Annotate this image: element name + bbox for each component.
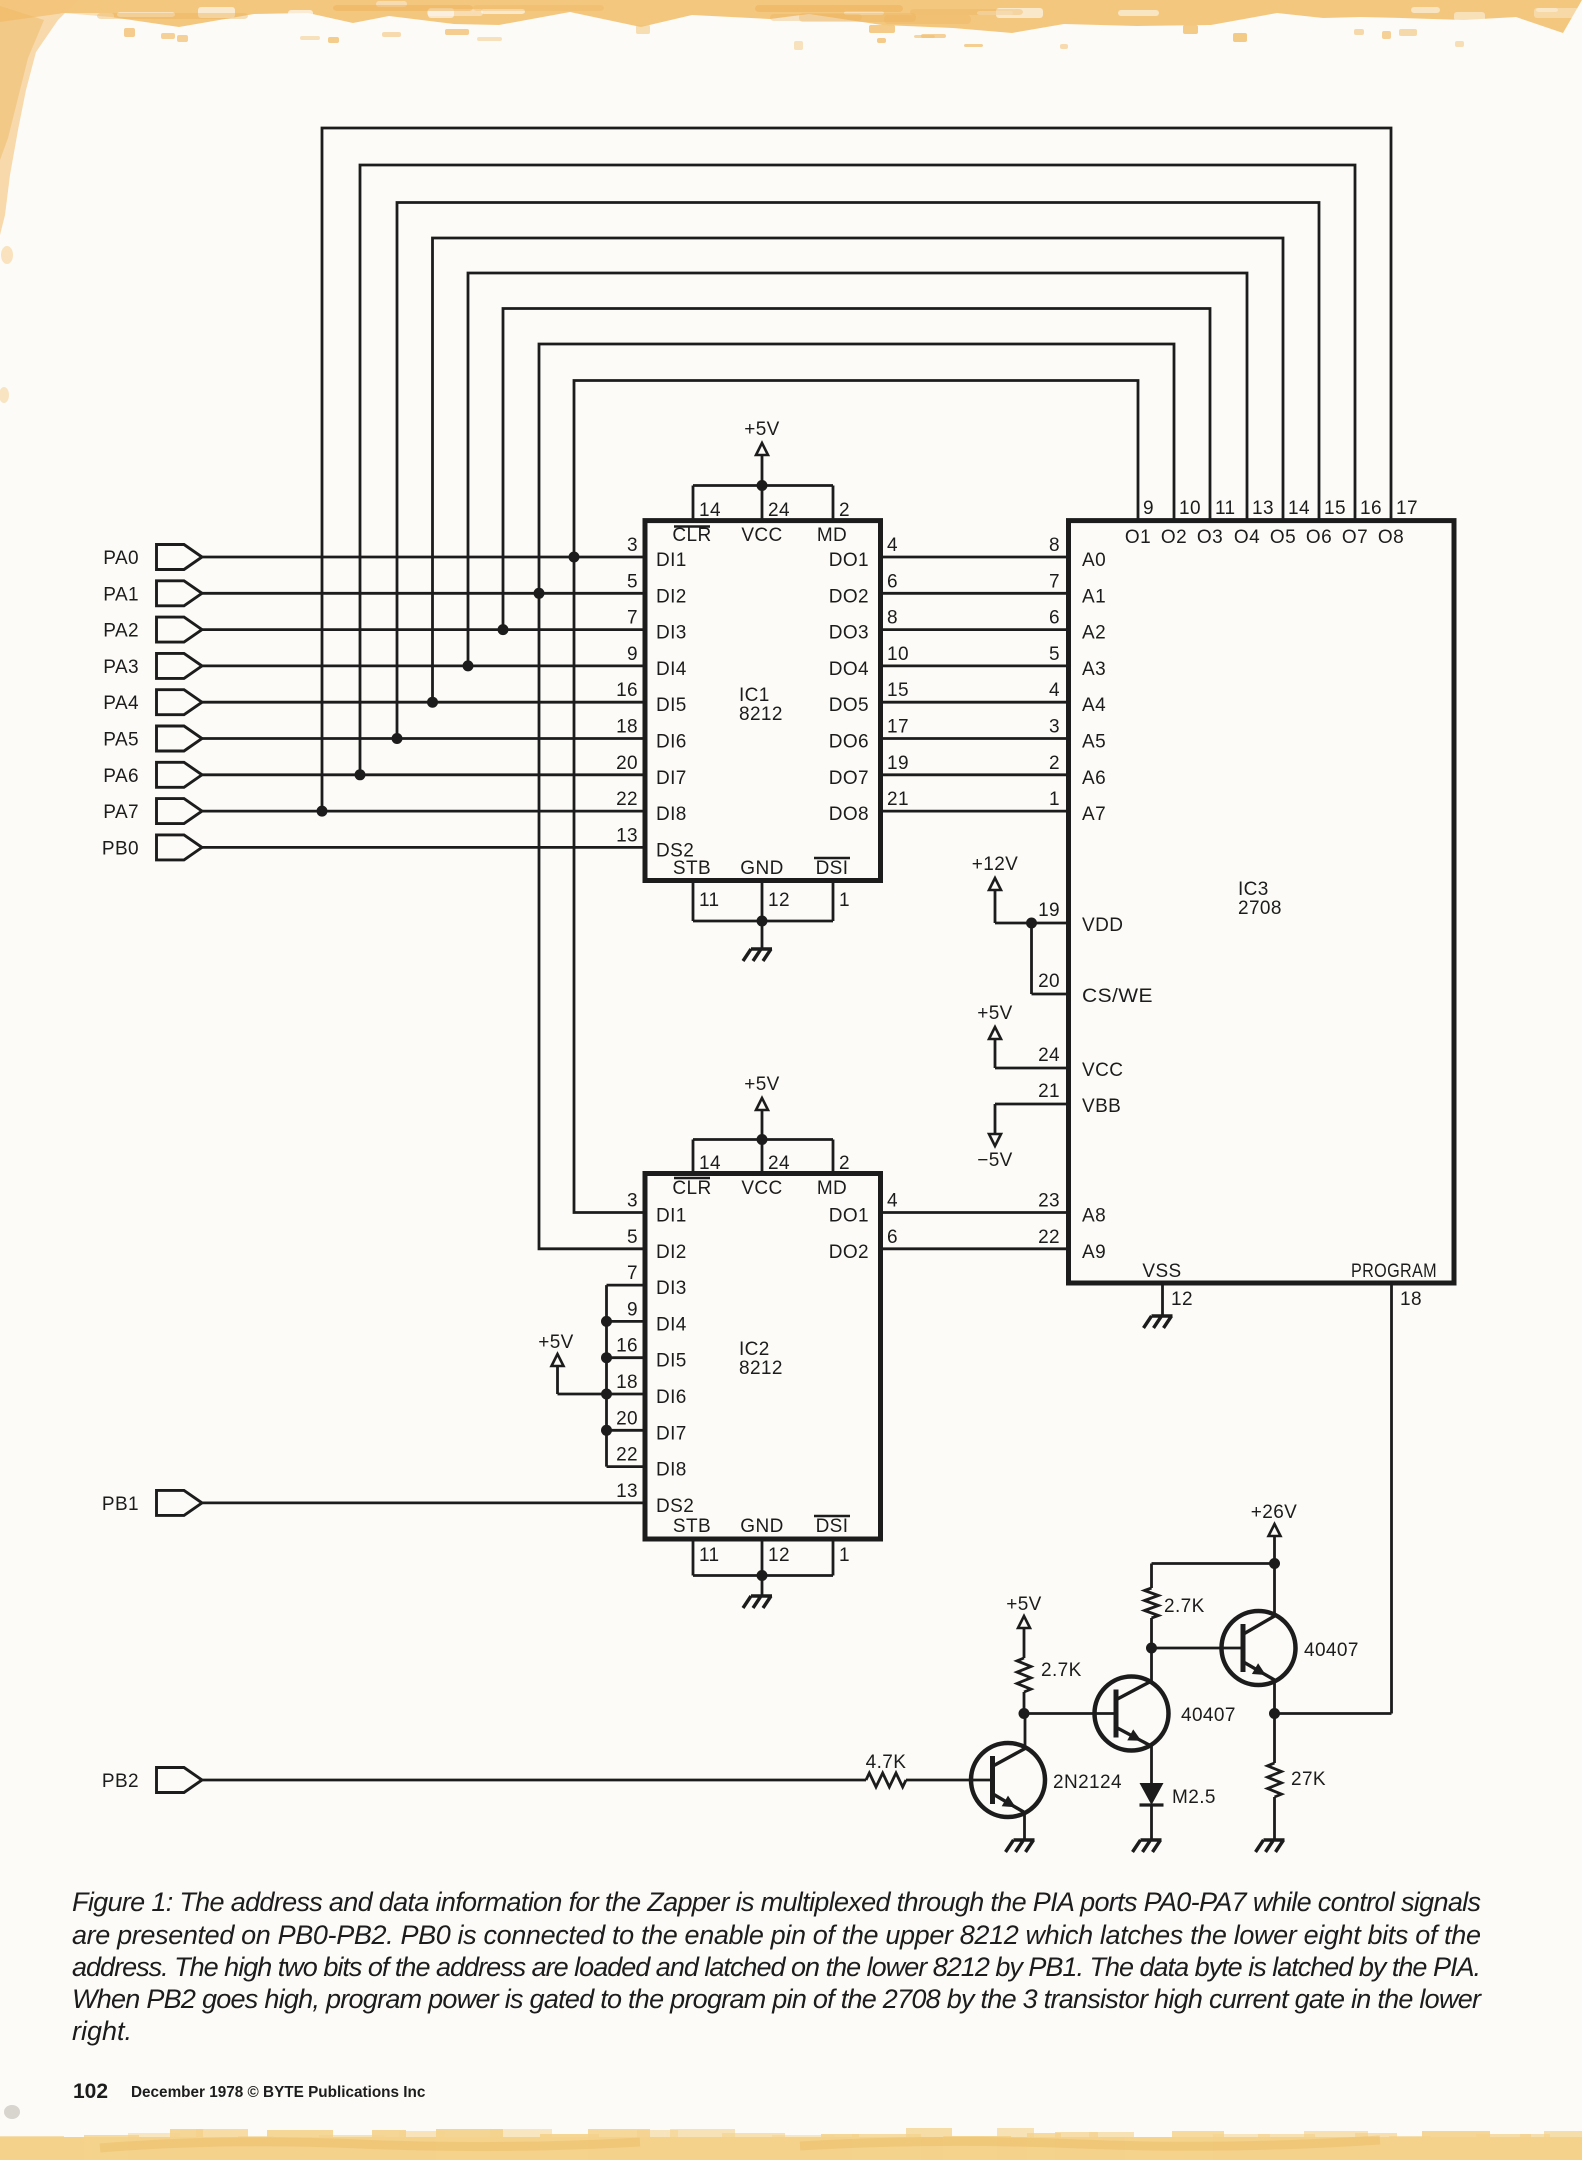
wire PA4 to IC1	[202, 701, 645, 704]
svg-text:Figure 1: The address and data: Figure 1: The address and data informati…	[72, 1887, 1481, 1917]
svg-text:O7: O7	[1342, 527, 1368, 548]
junction node PA0	[569, 552, 580, 563]
svg-text:STB: STB	[673, 1516, 711, 1537]
svg-text:A8: A8	[1082, 1206, 1106, 1227]
wire DO3 to A2	[881, 628, 1069, 631]
svg-text:When PB2 goes high, program po: When PB2 goes high, program power is gat…	[72, 1984, 1482, 2014]
junction node PA7	[317, 806, 328, 817]
connector PA0	[103, 545, 202, 570]
transistor Q3 40407	[1222, 1611, 1359, 1685]
wire PA5 to IC1	[202, 737, 645, 740]
svg-text:O3: O3	[1197, 527, 1223, 548]
ground (27K)	[1256, 1840, 1285, 1852]
junction IC2 DI7 bus	[601, 1425, 612, 1436]
svg-text:4: 4	[887, 1191, 898, 1212]
wire PA1 loop to 2708 pin 10	[539, 344, 1174, 593]
wire PA5 loop to 2708 pin 15	[397, 203, 1319, 739]
svg-text:10: 10	[1179, 498, 1201, 519]
junction IC1 GND	[757, 916, 768, 927]
svg-text:DO4: DO4	[829, 659, 869, 680]
connector PA1	[103, 581, 202, 606]
svg-text:PA5: PA5	[103, 730, 139, 751]
svg-text:3: 3	[1049, 717, 1060, 738]
IC2 ground bracket (pins 11, 12, 1)	[693, 1539, 850, 1596]
wire to Q2 base	[1024, 1712, 1117, 1715]
junction node PA5	[392, 733, 403, 744]
svg-text:17: 17	[887, 717, 909, 738]
wire PA3 to IC1	[202, 665, 645, 668]
svg-text:GND: GND	[740, 858, 783, 879]
orange highlighter stain band bottom	[0, 2105, 1582, 2160]
svg-text:A9: A9	[1082, 1242, 1106, 1263]
IC3 PROGRAM pin 18	[1351, 1261, 1437, 1310]
svg-text:O4: O4	[1234, 527, 1260, 548]
svg-text:2N2124: 2N2124	[1053, 1772, 1122, 1793]
junction IC1 VCC	[757, 480, 768, 491]
page footer	[73, 2080, 426, 2103]
svg-text:DI7: DI7	[656, 1423, 687, 1444]
wire PA3 loop to 2708 pin 13	[468, 273, 1247, 666]
connector PA5	[103, 726, 202, 751]
svg-text:PA3: PA3	[103, 657, 139, 678]
svg-text:14: 14	[1288, 498, 1310, 519]
IC3 VSS pin 12	[1142, 1261, 1193, 1316]
junction IC2 DI5 bus	[601, 1352, 612, 1363]
svg-text:12: 12	[768, 1545, 790, 1566]
wire PA1 vertical down to IC2 DI2	[539, 593, 645, 1249]
svg-text:O8: O8	[1378, 527, 1404, 548]
svg-text:DI1: DI1	[656, 550, 687, 571]
svg-text:7: 7	[627, 608, 638, 629]
IC2 8212 box	[645, 1174, 881, 1540]
svg-text:VCC: VCC	[741, 525, 782, 546]
svg-text:6: 6	[1049, 608, 1060, 629]
junction node PA6	[355, 769, 366, 780]
svg-text:O6: O6	[1306, 527, 1332, 548]
svg-text:address. The high two bits of: address. The high two bits of the addres…	[72, 1952, 1481, 1982]
IC1 8212 box	[645, 521, 881, 881]
svg-text:11: 11	[699, 1545, 720, 1566]
resistor 4.7K	[866, 1752, 907, 1787]
svg-text:2: 2	[839, 500, 850, 521]
svg-text:3: 3	[627, 1191, 638, 1212]
svg-text:4: 4	[887, 535, 898, 556]
svg-text:DO2: DO2	[829, 586, 869, 607]
svg-text:21: 21	[887, 789, 909, 810]
svg-text:DO6: DO6	[829, 732, 869, 753]
power -5V (IC3 VBB)	[977, 1104, 1068, 1171]
svg-text:−5V: −5V	[977, 1150, 1013, 1171]
svg-text:DI1: DI1	[656, 1206, 687, 1227]
junction IC2 DI6 bus	[601, 1389, 612, 1400]
IC3 VBB pin label	[1038, 1081, 1121, 1117]
svg-text:6: 6	[887, 1227, 898, 1248]
svg-text:PB0: PB0	[102, 838, 139, 859]
IC3 address pin labels A0-A7	[1049, 535, 1106, 825]
wire PA4 loop to 2708 pin 14	[433, 238, 1284, 702]
connector PA6	[103, 762, 202, 787]
svg-text:PA1: PA1	[103, 584, 139, 605]
svg-text:VCC: VCC	[1082, 1060, 1123, 1081]
svg-text:8: 8	[887, 608, 898, 629]
wire Q2 collector up	[1150, 1648, 1153, 1681]
orange stain top-left corner	[0, 0, 78, 403]
wire DO4 to A3	[881, 665, 1069, 668]
svg-text:11: 11	[699, 890, 720, 911]
connector PB2	[102, 1768, 202, 1793]
svg-text:A6: A6	[1082, 768, 1106, 789]
svg-text:GND: GND	[740, 1516, 783, 1537]
IC3 top pin numbers 9-17	[1143, 498, 1418, 519]
svg-text:IC2: IC2	[739, 1339, 770, 1360]
junction node PA2	[498, 624, 509, 635]
svg-text:13: 13	[1252, 498, 1274, 519]
connector PA2	[103, 617, 202, 642]
wire DO5 to A4	[881, 701, 1069, 704]
wire PA6 loop to 2708 pin 16	[360, 165, 1355, 775]
svg-text:DO2: DO2	[829, 1242, 869, 1263]
svg-text:CLR: CLR	[672, 525, 711, 546]
svg-text:1: 1	[839, 1545, 850, 1566]
junction node PA4	[427, 697, 438, 708]
svg-text:12: 12	[1171, 1289, 1193, 1310]
svg-text:are presented on PB0-PB2. PB0: are presented on PB0-PB2. PB0 is connect…	[72, 1920, 1481, 1950]
orange highlighter stain band top	[0, 0, 1582, 50]
svg-text:DO8: DO8	[829, 804, 869, 825]
svg-text:18: 18	[616, 717, 638, 738]
wire Q1 emitter to ground	[1023, 1813, 1026, 1841]
power +5V (gate)	[1006, 1594, 1042, 1658]
svg-text:1: 1	[839, 890, 850, 911]
svg-text:DO3: DO3	[829, 623, 869, 644]
svg-text:16: 16	[1360, 498, 1382, 519]
svg-text:16: 16	[616, 680, 638, 701]
IC2 left pin labels	[616, 1191, 694, 1517]
wire DO1 to A0	[881, 556, 1069, 559]
svg-text:DI3: DI3	[656, 1278, 687, 1299]
power +5V (IC2 top)	[744, 1074, 780, 1110]
svg-text:O1: O1	[1125, 527, 1151, 548]
svg-text:+5V: +5V	[744, 419, 780, 440]
svg-text:11: 11	[1215, 498, 1236, 519]
svg-text:20: 20	[1038, 971, 1060, 992]
IC2 top pin names CLR VCC MD	[672, 1178, 847, 1199]
ground (Q1)	[1006, 1840, 1035, 1852]
svg-text:2.7K: 2.7K	[1041, 1660, 1082, 1681]
svg-text:8212: 8212	[739, 1358, 783, 1379]
svg-text:VSS: VSS	[1142, 1261, 1181, 1282]
power +5V (IC2 left)	[538, 1332, 606, 1394]
junction IC2 GND	[757, 1570, 768, 1581]
wire PA0 vertical down to IC2 DI1	[574, 557, 645, 1213]
svg-text:DI6: DI6	[656, 732, 687, 753]
svg-text:M2.5: M2.5	[1172, 1787, 1216, 1808]
IC2 VCC bracket (pins 14, 24, 2)	[693, 1110, 850, 1174]
svg-text:2: 2	[1049, 753, 1060, 774]
figure caption	[72, 1887, 1482, 2046]
svg-text:+5V: +5V	[744, 1074, 780, 1095]
ground (IC1)	[743, 949, 772, 961]
IC3 VCC pin label	[1038, 1045, 1123, 1081]
IC3 A8 pin label	[1038, 1191, 1106, 1227]
wire DO6 to A5	[881, 737, 1069, 740]
svg-text:DI7: DI7	[656, 768, 687, 789]
svg-text:17: 17	[1396, 498, 1418, 519]
svg-text:+5V: +5V	[1006, 1594, 1042, 1615]
svg-text:20: 20	[616, 1408, 638, 1429]
svg-text:15: 15	[887, 680, 909, 701]
svg-text:+5V: +5V	[538, 1332, 574, 1353]
junction +26V	[1269, 1558, 1280, 1569]
wire DO8 to A7	[881, 810, 1069, 813]
svg-text:DO1: DO1	[829, 1206, 869, 1227]
svg-text:5: 5	[627, 1227, 638, 1248]
IC2 right pin labels	[829, 1191, 898, 1263]
connector PA3	[103, 653, 202, 678]
svg-text:2.7K: 2.7K	[1164, 1596, 1205, 1617]
svg-text:A4: A4	[1082, 695, 1106, 716]
transistor Q2 40407	[1095, 1677, 1236, 1751]
wire IC2 DO1 to A8	[881, 1211, 1069, 1214]
IC1 left pin labels	[616, 535, 694, 861]
svg-text:PB2: PB2	[102, 1771, 139, 1792]
svg-text:4: 4	[1049, 680, 1060, 701]
svg-text:DI8: DI8	[656, 804, 687, 825]
svg-text:27K: 27K	[1291, 1769, 1326, 1790]
wire DO7 to A6	[881, 773, 1069, 776]
svg-text:PA2: PA2	[103, 621, 139, 642]
svg-text:8: 8	[1049, 535, 1060, 556]
ground (IC3 VSS)	[1144, 1316, 1173, 1328]
svg-text:18: 18	[616, 1372, 638, 1393]
svg-text:22: 22	[616, 789, 638, 810]
svg-text:14: 14	[699, 500, 721, 521]
svg-text:102: 102	[73, 2080, 108, 2103]
IC3 output pin names O1-O8	[1125, 527, 1404, 548]
svg-text:7: 7	[1049, 571, 1060, 592]
wire PB1 to IC2 DS2	[202, 1502, 645, 1505]
svg-text:6: 6	[887, 571, 898, 592]
IC3 2708 box	[1069, 521, 1455, 1283]
IC3 reference label	[1238, 879, 1282, 919]
wire Q1 collector up	[1024, 1714, 1027, 1749]
wire IC2 DI3-DI8 bus	[607, 1285, 646, 1467]
svg-text:IC3: IC3	[1238, 879, 1269, 900]
connector PA7	[103, 799, 202, 824]
wire Q3 emitter down	[1273, 1680, 1276, 1714]
junction Q1 collector / Q2 base	[1019, 1708, 1030, 1719]
junction node PA1	[534, 588, 545, 599]
power +5V (IC1)	[744, 419, 780, 455]
svg-text:5: 5	[1049, 644, 1060, 665]
junction VDD/CSWE	[1026, 918, 1037, 929]
svg-text:22: 22	[616, 1445, 638, 1466]
IC1 right pin labels	[829, 535, 909, 825]
svg-text:VDD: VDD	[1082, 915, 1123, 936]
IC1 bottom pin names STB GND DSI	[673, 858, 850, 879]
resistor 2.7K (Q1 collector)	[1017, 1658, 1082, 1692]
svg-text:12: 12	[768, 890, 790, 911]
svg-text:24: 24	[768, 1153, 790, 1174]
svg-text:22: 22	[1038, 1227, 1060, 1248]
svg-text:DSI: DSI	[816, 858, 849, 879]
svg-text:CLR: CLR	[672, 1178, 711, 1199]
svg-text:STB: STB	[673, 858, 711, 879]
power +5V (IC3 VCC)	[977, 1003, 1068, 1068]
svg-text:14: 14	[699, 1153, 721, 1174]
IC2 reference label	[739, 1339, 783, 1379]
wire Q2 emitter to diode	[1150, 1746, 1153, 1783]
svg-text:DI4: DI4	[656, 1314, 687, 1335]
wire PA2 loop to 2708 pin 11	[503, 309, 1210, 630]
svg-text:PA0: PA0	[103, 548, 139, 569]
IC1 ground bracket (pins 11, 12, 1)	[693, 881, 850, 950]
svg-text:A3: A3	[1082, 659, 1106, 680]
wire PA7 loop to 2708 pin 17	[322, 128, 1391, 811]
svg-text:24: 24	[1038, 1045, 1060, 1066]
svg-text:13: 13	[616, 1481, 638, 1502]
svg-text:PA4: PA4	[103, 693, 139, 714]
svg-text:DI8: DI8	[656, 1460, 687, 1481]
svg-text:16: 16	[616, 1336, 638, 1357]
svg-text:VBB: VBB	[1082, 1096, 1121, 1117]
diode M2.5	[1140, 1783, 1216, 1808]
svg-text:10: 10	[887, 644, 909, 665]
svg-text:4.7K: 4.7K	[866, 1752, 907, 1773]
svg-text:DO7: DO7	[829, 768, 869, 789]
IC3 A9 pin label	[1038, 1227, 1106, 1263]
svg-text:December 1978 © BYTE Publicati: December 1978 © BYTE Publications Inc	[131, 2084, 426, 2101]
svg-text:DSI: DSI	[816, 1516, 849, 1537]
svg-text:40407: 40407	[1304, 1640, 1359, 1661]
svg-text:O5: O5	[1270, 527, 1296, 548]
svg-text:9: 9	[627, 1299, 638, 1320]
wire PA6 to IC1	[202, 773, 645, 776]
wire PA0 loop to 2708 pin 9	[574, 381, 1138, 558]
svg-text:2708: 2708	[1238, 898, 1282, 919]
connector PB1	[102, 1490, 202, 1515]
svg-text:PA6: PA6	[103, 766, 139, 787]
junction IC2 DI4 bus	[601, 1316, 612, 1327]
wire PA0 to IC1	[202, 556, 645, 559]
svg-text:5: 5	[627, 571, 638, 592]
IC3 VDD pin label	[1038, 900, 1123, 936]
svg-text:40407: 40407	[1181, 1705, 1236, 1726]
IC2 bottom pin names STB GND DSI	[673, 1516, 850, 1537]
svg-text:1: 1	[1049, 789, 1060, 810]
svg-text:20: 20	[616, 753, 638, 774]
wire Q3 base	[1152, 1647, 1245, 1650]
svg-text:right.: right.	[72, 2016, 132, 2046]
svg-text:PB1: PB1	[102, 1494, 139, 1515]
svg-text:DI5: DI5	[656, 1351, 687, 1372]
connector PB0	[102, 835, 202, 860]
junction IC2 VCC	[757, 1134, 768, 1145]
svg-text:+12V: +12V	[972, 854, 1019, 875]
IC1 VCC bracket (pins 14, 24, 2)	[693, 455, 850, 521]
wire resistor top to +26V line	[1152, 1562, 1275, 1565]
svg-text:15: 15	[1324, 498, 1346, 519]
wire 4.7K to Q1 base	[906, 1779, 994, 1782]
svg-text:DI5: DI5	[656, 695, 687, 716]
IC1 top pin names CLR VCC MD	[672, 525, 847, 546]
svg-text:21: 21	[1038, 1081, 1060, 1102]
svg-text:DO5: DO5	[829, 695, 869, 716]
svg-text:13: 13	[616, 825, 638, 846]
svg-text:CS/WE: CS/WE	[1082, 986, 1153, 1007]
svg-text:8212: 8212	[739, 704, 783, 725]
svg-text:9: 9	[627, 644, 638, 665]
wire PB0 to IC1	[202, 846, 645, 849]
resistor 2.7K (Q2 collector)	[1145, 1564, 1205, 1649]
svg-text:A5: A5	[1082, 732, 1106, 753]
svg-text:DO1: DO1	[829, 550, 869, 571]
svg-text:MD: MD	[817, 1178, 847, 1199]
svg-text:A0: A0	[1082, 550, 1106, 571]
svg-text:PA7: PA7	[103, 802, 139, 823]
IC1 reference label	[739, 685, 783, 725]
svg-text:7: 7	[627, 1263, 638, 1284]
svg-text:A1: A1	[1082, 586, 1106, 607]
resistor 27K	[1268, 1714, 1327, 1841]
IC3 CS/WE pin label	[1038, 971, 1153, 1007]
svg-text:+26V: +26V	[1251, 1502, 1298, 1523]
junction Q3 emitter / program node	[1269, 1708, 1280, 1719]
wire PROGRAM to gate	[1390, 1283, 1393, 1714]
wire IC2 DO2 to A9	[881, 1247, 1069, 1250]
junction Q2 collector / Q3 base	[1146, 1643, 1157, 1654]
svg-text:3: 3	[627, 535, 638, 556]
ground (IC2)	[743, 1596, 772, 1608]
connector PA4	[103, 690, 202, 715]
svg-text:VCC: VCC	[741, 1178, 782, 1199]
svg-text:9: 9	[1143, 498, 1154, 519]
wire PA2 to IC1	[202, 628, 645, 631]
wire emitter node to PROGRAM line	[1275, 1712, 1392, 1715]
wire to CS/WE pin 20	[1032, 923, 1069, 994]
svg-text:A2: A2	[1082, 623, 1106, 644]
svg-text:+5V: +5V	[977, 1003, 1013, 1024]
junction node PA3	[463, 660, 474, 671]
wire PA1 to IC1	[202, 592, 645, 595]
svg-text:19: 19	[887, 753, 909, 774]
wire PB2 to 4.7K resistor	[202, 1779, 866, 1782]
transistor Q1 2N2124	[971, 1743, 1122, 1817]
svg-text:DI2: DI2	[656, 586, 687, 607]
svg-text:DI6: DI6	[656, 1387, 687, 1408]
svg-text:IC1: IC1	[739, 685, 770, 706]
wire diode to ground	[1150, 1805, 1153, 1840]
power +12V	[972, 854, 1069, 923]
svg-text:24: 24	[768, 500, 790, 521]
svg-text:19: 19	[1038, 900, 1060, 921]
power +26V	[1251, 1502, 1298, 1616]
ground (diode)	[1133, 1840, 1162, 1852]
svg-text:2: 2	[839, 1153, 850, 1174]
svg-text:DI2: DI2	[656, 1242, 687, 1263]
svg-text:DS2: DS2	[656, 1496, 694, 1517]
svg-text:A7: A7	[1082, 804, 1106, 825]
svg-text:PROGRAM: PROGRAM	[1351, 1261, 1437, 1282]
svg-text:O2: O2	[1161, 527, 1187, 548]
svg-text:MD: MD	[817, 525, 847, 546]
wire DO2 to A1	[881, 592, 1069, 595]
svg-text:DI4: DI4	[656, 659, 687, 680]
svg-text:18: 18	[1400, 1289, 1422, 1310]
svg-text:DI3: DI3	[656, 623, 687, 644]
wire PA7 to IC1	[202, 810, 645, 813]
svg-text:23: 23	[1038, 1191, 1060, 1212]
